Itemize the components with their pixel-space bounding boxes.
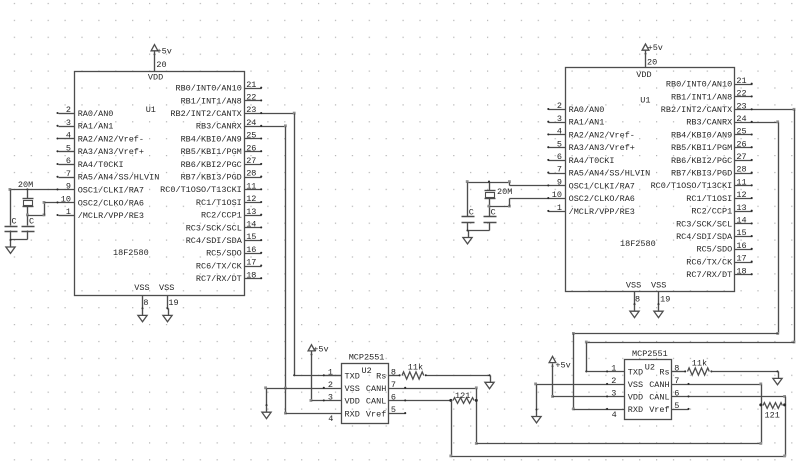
svg-text:7: 7 [557, 165, 562, 175]
svg-text:MCP2551: MCP2551 [632, 349, 668, 359]
wire pin 9 node to capacitor C1 left [10, 190, 12, 226]
svg-text:RA5/AN4/SS/HLVIN: RA5/AN4/SS/HLVIN [569, 169, 651, 179]
svg-text:VSS: VSS [134, 283, 149, 293]
wire +5V to VDD pin 3 U2 right [552, 364, 554, 397]
wire crystal Y1 bottom to capacitor C2 left [27, 207, 29, 226]
svg-text:17: 17 [736, 254, 746, 264]
svg-text:RA4/T0CKI: RA4/T0CKI [78, 160, 124, 170]
svg-text:RA1/AN1: RA1/AN1 [569, 118, 605, 128]
pin 15 RC4/SDI/SDA right U1 [735, 236, 753, 238]
svg-text:U1: U1 [146, 105, 156, 115]
pin 18 RC7/RX/DT right U1 [735, 274, 753, 276]
wire CANH bus line [477, 443, 762, 445]
pin 27 RB6/KBI2/PGC right U1 [735, 160, 753, 162]
svg-text:20M: 20M [18, 180, 33, 190]
pin 7 RA5/AN4/SS/HLVIN left U1 [59, 177, 75, 179]
pin 5 RA3/AN3/Vref+ left U1 [59, 151, 75, 153]
pin 12 RC1/T1OSI left U1 [245, 202, 262, 204]
svg-text:Vref: Vref [649, 405, 669, 415]
svg-text:VSS: VSS [626, 281, 641, 291]
pin 17 RC6/TX/CK left U1 [245, 266, 262, 268]
svg-text:RB1/INT1/AN8: RB1/INT1/AN8 [181, 96, 242, 106]
resistor R4 121 termination right [759, 403, 762, 406]
pin 4 RA2/AN2/Vref- right U1 [549, 134, 566, 136]
wire CANTX RB2 pin 23 left U1 to TXD U2 left [245, 113, 295, 115]
pin 16 RC5/SDO right U1 [735, 249, 753, 251]
svg-text:28: 28 [246, 169, 256, 179]
svg-text:18: 18 [246, 270, 256, 280]
svg-text:U2: U2 [362, 366, 372, 376]
svg-text:19: 19 [660, 294, 670, 304]
svg-text:+5v: +5v [648, 43, 663, 53]
svg-text:RA0/AN0: RA0/AN0 [78, 109, 114, 119]
svg-text:RC4/SDI/SDA: RC4/SDI/SDA [676, 232, 733, 242]
svg-text:4: 4 [612, 410, 617, 420]
wire CANRX RB3 pin 24 right U1 to RXD U2 right [735, 122, 779, 124]
svg-text:RB2/INT2/CANTX: RB2/INT2/CANTX [661, 105, 732, 115]
transceiver U2 left MCP2551 body [342, 364, 389, 424]
svg-text:RXD: RXD [628, 405, 643, 415]
svg-text:RC0/T1OSO/T13CKI: RC0/T1OSO/T13CKI [651, 181, 733, 191]
svg-text:RB3/CANRX: RB3/CANRX [686, 118, 732, 128]
svg-text:RC7/RX/DT: RC7/RX/DT [196, 274, 242, 284]
svg-text:RC5/SDO: RC5/SDO [696, 245, 732, 255]
svg-text:4: 4 [66, 131, 71, 141]
ground VSS U2 left [265, 404, 267, 406]
wire CANL pin 6 U2 left to CAN bus [389, 400, 452, 402]
svg-text:RB5/KBI1/PGM: RB5/KBI1/PGM [671, 143, 732, 153]
svg-text:26: 26 [736, 139, 746, 149]
op-amp U1 right microcontroller PIC18F2580 body [566, 68, 735, 292]
svg-text:22: 22 [736, 89, 746, 99]
pin 21 RB0/INT0/AN10 right U1 [735, 84, 753, 86]
svg-text:11: 11 [736, 177, 746, 187]
svg-text:TXD: TXD [345, 372, 360, 382]
svg-text:3: 3 [557, 114, 562, 124]
pin 3 RA1/AN1 left U1 [59, 126, 75, 128]
wire node to capacitor C3 right [467, 183, 469, 217]
svg-text:4: 4 [557, 127, 562, 137]
wire crystal Y2 bottom to capacitor C4 right [489, 199, 491, 217]
svg-text:RC2/CCP1: RC2/CCP1 [691, 207, 732, 217]
svg-text:4: 4 [328, 414, 333, 424]
svg-text:C: C [29, 217, 34, 227]
svg-text:RA1/AN1: RA1/AN1 [78, 122, 114, 132]
ground VSS U2 right [535, 408, 537, 410]
svg-text:RB7/KBI3/PGD: RB7/KBI3/PGD [181, 173, 242, 183]
pin 6 RA4/T0CKI left U1 [59, 164, 75, 166]
svg-text:14: 14 [736, 216, 746, 226]
pin 16 RC5/SDO left U1 [245, 253, 262, 255]
svg-text:VDD: VDD [345, 397, 360, 407]
svg-text:8: 8 [635, 294, 640, 304]
wire VSS pin 2 U2 right to ground [537, 384, 625, 386]
svg-text:20: 20 [647, 58, 657, 68]
svg-text:6: 6 [557, 152, 562, 162]
power +5V supply for right U1 [642, 44, 649, 50]
svg-text:RC4/SDI/SDA: RC4/SDI/SDA [186, 236, 243, 246]
svg-text:5: 5 [66, 143, 71, 153]
wire crystal Y2 to OSC2 pin 10 right [490, 206, 510, 208]
svg-text:CANH: CANH [366, 384, 386, 394]
pin 18 RC7/RX/DT left U1 [245, 278, 262, 280]
pin 14 RC3/SCK/SCL right U1 [735, 223, 753, 225]
pin 25 RB4/KBI0/AN9 right U1 [735, 134, 753, 136]
svg-text:25: 25 [736, 127, 746, 137]
svg-text:U2: U2 [645, 362, 655, 372]
svg-text:5: 5 [557, 139, 562, 149]
svg-text:20: 20 [156, 60, 166, 70]
svg-text:MCP2551: MCP2551 [349, 353, 385, 363]
svg-text:22: 22 [246, 93, 256, 103]
transceiver U2 right MCP2551 body [625, 360, 672, 420]
svg-text:/MCLR/VPP/RE3: /MCLR/VPP/RE3 [569, 207, 635, 217]
op-amp U1 left microcontroller PIC18F2580 body [75, 72, 245, 296]
svg-text:3: 3 [66, 118, 71, 128]
svg-text:RB7/KBI3/PGD: RB7/KBI3/PGD [671, 169, 732, 179]
svg-text:RA0/AN0: RA0/AN0 [569, 105, 605, 115]
pin 19 VSS ground right U1 [658, 292, 660, 305]
svg-text:11: 11 [246, 181, 256, 191]
svg-text:18F2580: 18F2580 [113, 248, 149, 258]
pin 2 RA0/AN0 right U1 [549, 109, 566, 111]
pin 1 TXD U2 left [325, 375, 342, 377]
svg-text:RC2/CCP1: RC2/CCP1 [201, 211, 242, 221]
svg-text:RA2/AN2/Vref-: RA2/AN2/Vref- [78, 134, 144, 144]
ground right crystal circuit [466, 229, 468, 231]
svg-text:14: 14 [246, 220, 256, 230]
resistor R3 11k slope control U2 right [672, 371, 686, 373]
svg-text:RB6/KBI2/PGC: RB6/KBI2/PGC [671, 156, 732, 166]
pin 19 VSS ground left U1 [167, 296, 169, 309]
pin 26 RB5/KBI1/PGM right U1 [735, 147, 753, 149]
pin 11 RC0/T1OSO/T13CKI right U1 [735, 185, 753, 187]
svg-text:20M: 20M [497, 187, 512, 197]
resistor R1 11k slope control U2 left [389, 375, 401, 377]
svg-text:15: 15 [736, 228, 746, 238]
pin 13 RC2/CCP1 left U1 [245, 215, 262, 217]
svg-text:13: 13 [736, 203, 746, 213]
pin 17 RC6/TX/CK right U1 [735, 262, 753, 264]
svg-text:RC5/SDO: RC5/SDO [206, 249, 242, 259]
wire +5V to left U1 VDD pin 20 [154, 52, 156, 72]
svg-text:RA5/AN4/SS/HLVIN: RA5/AN4/SS/HLVIN [78, 173, 160, 183]
wire capacitors C1 C2 to ground left [10, 231, 12, 241]
svg-text:15: 15 [246, 232, 256, 242]
wire CANTX RB2 pin 23 right U1 to TXD U2 right [735, 109, 795, 111]
svg-text:+5v: +5v [313, 344, 328, 354]
svg-text:+5v: +5v [555, 360, 570, 370]
svg-text:RB0/INT0/AN10: RB0/INT0/AN10 [666, 80, 732, 90]
pin 2 RA0/AN0 left U1 [59, 113, 75, 115]
svg-text:28: 28 [736, 165, 746, 175]
power +5V supply for left U1 [151, 45, 158, 51]
svg-text:TXD: TXD [628, 368, 643, 378]
svg-text:18: 18 [736, 266, 746, 276]
svg-text:Rs: Rs [376, 372, 386, 382]
wire +5V to right U1 VDD pin 20 [645, 51, 647, 68]
wire +5V to VDD pin 3 U2 left [311, 352, 313, 401]
pin 22 RB1/INT1/AN8 left U1 [245, 100, 262, 102]
svg-text:CANL: CANL [649, 393, 669, 403]
svg-text:26: 26 [246, 143, 256, 153]
svg-text:RC6/TX/CK: RC6/TX/CK [686, 257, 733, 267]
wire OSC1 pin 9 to crystal Y1 left [11, 189, 75, 191]
svg-text:VSS: VSS [651, 281, 666, 291]
ground Rs right [776, 370, 778, 372]
svg-text:RA3/AN3/Vref+: RA3/AN3/Vref+ [569, 143, 635, 153]
svg-text:121: 121 [455, 391, 470, 401]
ground Rs left [488, 374, 490, 376]
svg-text:RA3/AN3/Vref+: RA3/AN3/Vref+ [78, 147, 144, 157]
svg-text:121: 121 [765, 411, 780, 421]
pin 8 VSS ground right U1 [634, 292, 636, 305]
svg-text:RA2/AN2/Vref-: RA2/AN2/Vref- [569, 130, 635, 140]
svg-text:Vref: Vref [366, 409, 386, 419]
svg-text:VSS: VSS [628, 380, 643, 390]
svg-text:27: 27 [736, 152, 746, 162]
wire CANH pin 7 U2 left to CAN bus [389, 388, 477, 390]
svg-text:8: 8 [143, 298, 148, 308]
svg-text:RA4/T0CKI: RA4/T0CKI [569, 156, 615, 166]
wire VSS pin 2 U2 left to ground [267, 388, 342, 390]
pin 27 RB6/KBI2/PGC left U1 [245, 164, 262, 166]
wire Rs resistor R3 to ground right [712, 371, 778, 373]
pin 13 RC2/CCP1 right U1 [735, 211, 753, 213]
svg-text:2: 2 [557, 101, 562, 111]
wire crystal Y1 to OSC2 pin 10 left [28, 215, 45, 217]
wire CANH pin 7 U2 right to CAN bus [672, 384, 762, 386]
svg-text:RC6/TX/CK: RC6/TX/CK [196, 261, 243, 271]
pin 1 /MCLR/VPP/RE3 right U1 [549, 211, 566, 213]
wire Rs resistor R1 to ground left [427, 375, 490, 377]
svg-text:RB4/KBI0/AN9: RB4/KBI0/AN9 [181, 134, 242, 144]
svg-text:OSC2/CLKO/RA6: OSC2/CLKO/RA6 [569, 194, 635, 204]
pin 25 RB4/KBI0/AN9 left U1 [245, 138, 262, 140]
svg-text:Rs: Rs [659, 368, 669, 378]
svg-text:VSS: VSS [345, 384, 360, 394]
wire CANRX RB3 pin 24 left U1 to RXD U2 left [245, 126, 286, 128]
svg-text:RB3/CANRX: RB3/CANRX [196, 122, 242, 132]
pin 11 RC0/T1OSO/T13CKI left U1 [245, 189, 262, 191]
svg-text:25: 25 [246, 131, 256, 141]
pin 4 RA2/AN2/Vref- left U1 [59, 138, 75, 140]
svg-text:RB0/INT0/AN10: RB0/INT0/AN10 [175, 84, 241, 94]
svg-text:16: 16 [736, 241, 746, 251]
svg-text:1: 1 [66, 207, 71, 217]
svg-text:21: 21 [246, 80, 256, 90]
svg-text:RXD: RXD [345, 409, 360, 419]
svg-text:RB2/INT2/CANTX: RB2/INT2/CANTX [170, 109, 241, 119]
resistor R2 121 termination left [453, 398, 474, 404]
svg-text:VSS: VSS [159, 283, 174, 293]
pin 28 RB7/KBI3/PGD left U1 [245, 177, 262, 179]
svg-text:12: 12 [736, 190, 746, 200]
svg-text:+5v: +5v [157, 47, 172, 57]
svg-text:RC3/SCK/SCL: RC3/SCK/SCL [186, 223, 242, 233]
pin 14 RC3/SCK/SCL left U1 [245, 227, 262, 229]
svg-text:RC7/RX/DT: RC7/RX/DT [686, 270, 732, 280]
svg-text:VDD: VDD [148, 72, 163, 82]
power +5V supply for U2 left [308, 345, 315, 351]
pin 1 TXD U2 right [587, 371, 625, 373]
svg-text:CANL: CANL [366, 397, 386, 407]
svg-text:RC3/SCK/SCL: RC3/SCK/SCL [676, 219, 732, 229]
pin 21 RB0/INT0/AN10 left U1 [245, 88, 262, 90]
svg-text:1: 1 [328, 367, 333, 377]
wire capacitors C3 C4 to ground right [467, 223, 469, 231]
pin 5 RA3/AN3/Vref+ right U1 [549, 147, 566, 149]
pin 15 RC4/SDI/SDA left U1 [245, 240, 262, 242]
svg-text:21: 21 [736, 76, 746, 86]
svg-text:13: 13 [246, 207, 256, 217]
svg-text:1: 1 [611, 364, 616, 374]
svg-text:VDD: VDD [628, 393, 643, 403]
pin 7 RA5/AN4/SS/HLVIN right U1 [549, 173, 566, 175]
svg-text:12: 12 [246, 194, 256, 204]
power +5V supply for U2 right [549, 356, 556, 362]
svg-text:U1: U1 [640, 96, 650, 106]
svg-text:CANH: CANH [649, 380, 669, 390]
svg-text:OSC1/CLKI/RA7: OSC1/CLKI/RA7 [569, 181, 635, 191]
ground left crystal circuit [9, 239, 11, 241]
pin 6 RA4/T0CKI right U1 [549, 160, 566, 162]
svg-text:RC1/T1OSI: RC1/T1OSI [196, 198, 242, 208]
wire CANL pin 6 U2 right to CAN bus [672, 396, 786, 398]
svg-text:16: 16 [246, 245, 256, 255]
pin 28 RB7/KBI3/PGD right U1 [735, 173, 753, 175]
svg-text:/MCLR/VPP/RE3: /MCLR/VPP/RE3 [78, 211, 144, 221]
pin 22 RB1/INT1/AN8 right U1 [735, 96, 753, 98]
svg-text:RC0/T1OSO/T13CKI: RC0/T1OSO/T13CKI [160, 185, 242, 195]
svg-text:2: 2 [66, 105, 71, 115]
svg-text:RB5/KBI1/PGM: RB5/KBI1/PGM [181, 147, 242, 157]
svg-text:RB4/KBI0/AN9: RB4/KBI0/AN9 [671, 130, 732, 140]
svg-text:OSC1/CLKI/RA7: OSC1/CLKI/RA7 [78, 185, 144, 195]
svg-text:1: 1 [557, 203, 562, 213]
pin 3 RA1/AN1 right U1 [549, 122, 566, 124]
svg-text:7: 7 [66, 169, 71, 179]
svg-text:RB6/KBI2/PGC: RB6/KBI2/PGC [181, 160, 242, 170]
wire OSC1 pin 9 node right crystal [468, 182, 510, 184]
svg-text:RB1/INT1/AN8: RB1/INT1/AN8 [671, 92, 732, 102]
svg-text:11k: 11k [408, 362, 423, 372]
svg-text:6: 6 [66, 156, 71, 166]
pin 26 RB5/KBI1/PGM left U1 [245, 151, 262, 153]
svg-text:VDD: VDD [636, 70, 651, 80]
svg-text:11k: 11k [692, 358, 707, 368]
svg-text:19: 19 [168, 298, 178, 308]
pin 1 /MCLR/VPP/RE3 left U1 [59, 215, 75, 217]
svg-text:C: C [12, 217, 17, 227]
svg-text:OSC2/CLKO/RA6: OSC2/CLKO/RA6 [78, 198, 144, 208]
svg-text:18F2580: 18F2580 [620, 239, 656, 249]
svg-text:27: 27 [246, 156, 256, 166]
svg-text:17: 17 [246, 258, 256, 268]
wire CANL bus line [452, 456, 786, 458]
svg-text:RC1/T1OSI: RC1/T1OSI [686, 194, 732, 204]
pin 12 RC1/T1OSI right U1 [735, 198, 753, 200]
pin 8 VSS ground left U1 [142, 296, 144, 309]
pin 4 RXD U2 right [574, 409, 625, 411]
